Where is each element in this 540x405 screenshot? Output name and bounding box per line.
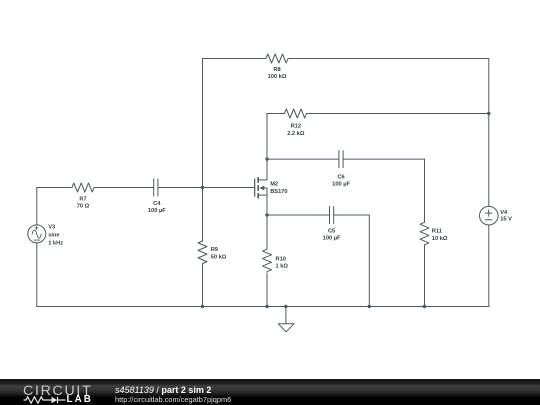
- footer url line: [115, 396, 231, 403]
- svg-text:15 V: 15 V: [500, 217, 512, 223]
- svg-text:70 Ω: 70 Ω: [77, 204, 90, 210]
- wire top rail (R8 net) from x=202 to x=488 at y=58: [203, 58, 489, 60]
- wire right branch vertical x=424 from C6 rail to bottom rail: [424, 159, 426, 306]
- node bottom rail R9 junction: [201, 305, 204, 308]
- wire bottom rail y=306: [37, 306, 489, 308]
- resistor R10: [263, 249, 272, 272]
- svg-text:R9: R9: [211, 247, 218, 253]
- svg-text:R8: R8: [273, 67, 280, 73]
- wire C6 branch y=158.6 from drain junction to x=424: [267, 158, 425, 160]
- svg-text:M2: M2: [270, 182, 278, 188]
- resistor R7: [72, 183, 94, 192]
- svg-text:1 kΩ: 1 kΩ: [276, 264, 289, 270]
- svg-text:1 kHz: 1 kHz: [48, 240, 63, 246]
- svg-text:C6: C6: [337, 174, 344, 180]
- svg-text:C4: C4: [153, 201, 161, 207]
- mosfet M2: [255, 178, 267, 198]
- resistor R11: [420, 222, 429, 245]
- svg-text:V4: V4: [500, 210, 508, 216]
- node bottom rail R10 junction: [265, 305, 268, 308]
- svg-text:R10: R10: [276, 256, 286, 262]
- svg-text:sine: sine: [48, 233, 59, 239]
- svg-text:100 µF: 100 µF: [332, 181, 350, 187]
- svg-text:BS170: BS170: [270, 189, 287, 195]
- svg-text:R12: R12: [291, 124, 301, 130]
- svg-text:100 µF: 100 µF: [148, 208, 166, 214]
- svg-text:R11: R11: [432, 229, 442, 235]
- svg-text:10 kΩ: 10 kΩ: [432, 236, 448, 242]
- svg-text:V3: V3: [48, 225, 55, 231]
- svg-text:R7: R7: [79, 196, 86, 202]
- wire source vertical x=266.5 from mosfet down to bottom rail: [266, 195, 268, 306]
- wire right vertical x=488.3 from top rail to V4: [488, 59, 490, 207]
- footer logo symbol row: [23, 396, 66, 404]
- svg-text:100 µF: 100 µF: [323, 236, 341, 242]
- wire C5 branch y=214.5 from source junction to x=368.8: [267, 214, 369, 216]
- node R12 junction: [487, 112, 490, 115]
- wire gate rail y=187 from V3 branch to MOSFET gate: [37, 187, 255, 189]
- wire drain vertical x=266.5 from R12 corner down to mosfet: [266, 114, 268, 180]
- svg-text:50 kΩ: 50 kΩ: [211, 254, 227, 260]
- capacitor C6: [339, 151, 343, 168]
- node source-C5 junction: [265, 213, 268, 216]
- svg-text:C5: C5: [328, 229, 335, 235]
- resistor R8: [266, 54, 288, 63]
- voltage source V3: [28, 188, 46, 307]
- node bottom rail R11 junction: [423, 305, 426, 308]
- footer bar: [0, 379, 540, 405]
- voltage source V4: [480, 206, 499, 306]
- capacitor C4: [154, 179, 158, 196]
- wire C5 right vertical x=368.8 down to bottom rail: [368, 215, 370, 307]
- node drain-C6 junction: [265, 157, 268, 160]
- svg-text:100 kΩ: 100 kΩ: [268, 74, 287, 80]
- svg-text:2.2 kΩ: 2.2 kΩ: [287, 131, 305, 137]
- capacitor C5: [330, 207, 334, 224]
- resistor R9: [198, 241, 207, 264]
- wire R12 rail y=113 from drain vertical to right vertical: [267, 113, 489, 115]
- footer logo LAB: [67, 396, 93, 403]
- resistor R12: [285, 109, 307, 118]
- footer title line: [115, 386, 211, 394]
- node bottom rail ground junction: [284, 305, 287, 308]
- ground: [278, 307, 294, 332]
- wire left vertical x=202 from top rail to bottom rail: [202, 59, 204, 307]
- node bottom rail C5 junction: [368, 305, 371, 308]
- node gate junction: [201, 186, 204, 189]
- footer logo CIRCUIT: [23, 386, 92, 397]
